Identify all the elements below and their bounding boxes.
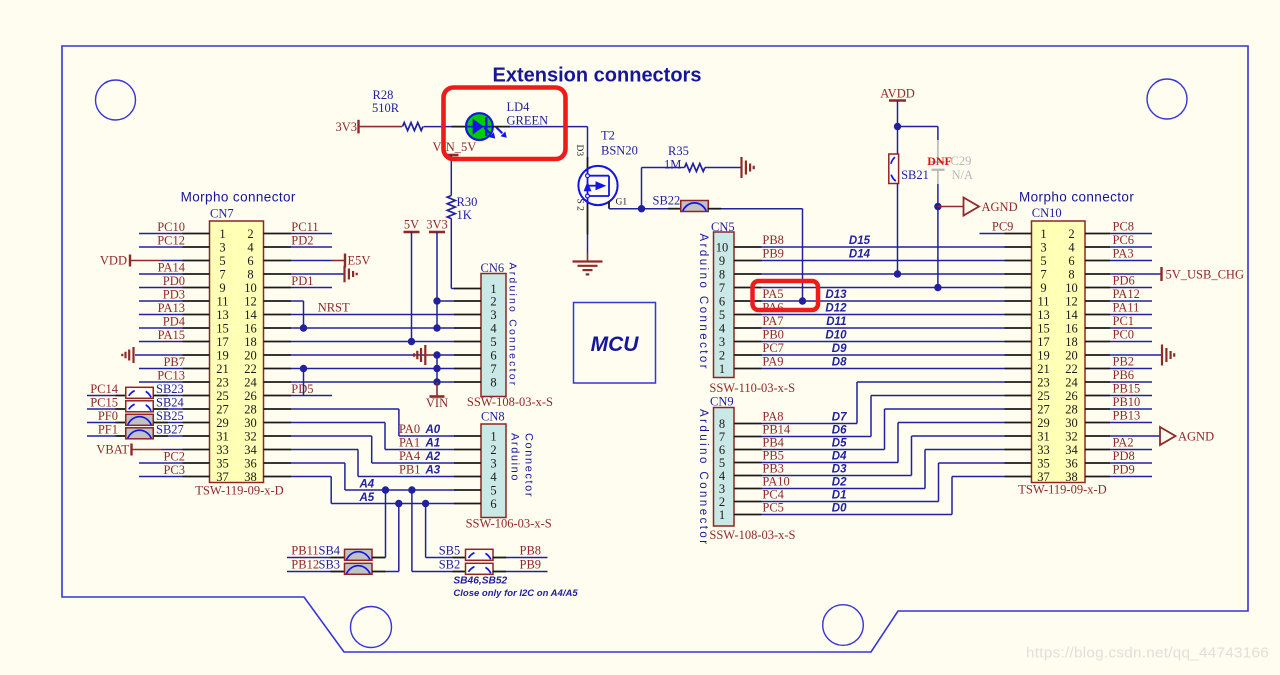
svg-text:D13: D13 (825, 289, 847, 301)
svg-text:8: 8 (719, 267, 725, 281)
svg-text:11: 11 (1037, 294, 1049, 308)
svg-text:D12: D12 (825, 303, 847, 315)
svg-text:PB8: PB8 (520, 544, 542, 558)
svg-text:5V_USB_CHG: 5V_USB_CHG (1166, 268, 1245, 282)
svg-text:PC12: PC12 (157, 234, 185, 248)
svg-text:E5V: E5V (348, 254, 371, 268)
svg-text:SSW-110-03-x-S: SSW-110-03-x-S (709, 381, 795, 395)
svg-text:1: 1 (1040, 227, 1046, 241)
svg-text:PC7: PC7 (762, 341, 784, 355)
svg-text:35: 35 (1037, 456, 1050, 470)
svg-text:AVDD: AVDD (880, 87, 915, 101)
svg-text:9: 9 (719, 254, 725, 268)
svg-text:PB6: PB6 (1113, 368, 1135, 382)
svg-text:5: 5 (1040, 254, 1046, 268)
svg-text:8: 8 (490, 375, 496, 389)
svg-text:22: 22 (244, 362, 257, 376)
svg-text:7: 7 (719, 430, 725, 444)
svg-text:PC15: PC15 (90, 396, 118, 410)
svg-text:35: 35 (216, 456, 229, 470)
svg-text:PB9: PB9 (520, 558, 542, 572)
svg-text:21: 21 (1037, 362, 1050, 376)
svg-text:A0: A0 (425, 424, 441, 436)
svg-text:15: 15 (1037, 321, 1050, 335)
svg-text:PA1: PA1 (399, 436, 420, 450)
svg-text:2: 2 (490, 443, 496, 457)
svg-text:S 2: S 2 (575, 199, 585, 212)
svg-text:PA12: PA12 (1113, 287, 1140, 301)
svg-text:9: 9 (1040, 281, 1046, 295)
svg-text:16: 16 (244, 321, 257, 335)
svg-text:4: 4 (490, 470, 497, 484)
svg-text:PB15: PB15 (1113, 382, 1141, 396)
svg-text:13: 13 (1037, 308, 1050, 322)
svg-text:SB5: SB5 (439, 544, 461, 558)
svg-text:VIN: VIN (426, 396, 448, 410)
svg-text:20: 20 (244, 348, 257, 362)
svg-text:D10: D10 (825, 330, 847, 342)
svg-text:PC13: PC13 (157, 369, 185, 383)
svg-text:12: 12 (1065, 294, 1078, 308)
svg-text:32: 32 (244, 429, 257, 443)
svg-text:24: 24 (244, 375, 257, 389)
svg-text:D11: D11 (826, 316, 846, 328)
svg-text:PB0: PB0 (762, 328, 784, 342)
svg-text:D0: D0 (832, 503, 847, 515)
svg-text:1: 1 (719, 508, 725, 522)
svg-text:1: 1 (490, 429, 496, 443)
svg-text:D2: D2 (832, 477, 847, 489)
svg-text:A1: A1 (425, 438, 441, 450)
svg-text:PA2: PA2 (1113, 436, 1134, 450)
svg-text:PD5: PD5 (291, 382, 313, 396)
svg-text:6: 6 (490, 348, 496, 362)
svg-text:26: 26 (1065, 389, 1078, 403)
svg-text:R28: R28 (373, 88, 394, 102)
svg-text:4: 4 (247, 240, 254, 254)
svg-text:31: 31 (216, 429, 229, 443)
svg-text:PA13: PA13 (158, 301, 185, 315)
svg-text:12: 12 (244, 294, 257, 308)
svg-text:SSW-108-03-x-S: SSW-108-03-x-S (709, 528, 795, 542)
svg-text:D3: D3 (832, 464, 847, 476)
svg-text:N/A: N/A (952, 168, 974, 182)
svg-text:3: 3 (1040, 240, 1046, 254)
svg-text:CN8: CN8 (481, 410, 505, 424)
svg-text:PF1: PF1 (98, 423, 118, 437)
svg-text:DNF: DNF (927, 154, 952, 168)
svg-text:PB11: PB11 (291, 544, 318, 558)
svg-text:PB9: PB9 (762, 247, 784, 261)
svg-text:Extension connectors: Extension connectors (493, 65, 702, 87)
svg-text:PA8: PA8 (762, 410, 783, 424)
svg-text:1: 1 (219, 227, 225, 241)
svg-text:AGND: AGND (982, 200, 1018, 214)
svg-text:Arduino Connector: Arduino Connector (507, 263, 519, 388)
svg-text:D5: D5 (832, 438, 847, 450)
svg-text:PC0: PC0 (1113, 328, 1135, 342)
svg-text:36: 36 (1065, 456, 1078, 470)
svg-text:PC6: PC6 (1113, 233, 1135, 247)
svg-text:A3: A3 (425, 465, 441, 477)
svg-text:PC8: PC8 (1113, 220, 1135, 234)
svg-text:7: 7 (1040, 267, 1046, 281)
svg-text:PB8: PB8 (762, 233, 784, 247)
svg-text:D1: D1 (832, 490, 847, 502)
svg-text:D8: D8 (832, 357, 847, 369)
svg-text:PB5: PB5 (762, 449, 784, 463)
svg-text:CN10: CN10 (1032, 206, 1062, 220)
svg-text:MCU: MCU (591, 333, 640, 356)
svg-text:22: 22 (1065, 362, 1078, 376)
svg-text:3: 3 (490, 456, 496, 470)
svg-text:25: 25 (216, 389, 229, 403)
svg-text:SB24: SB24 (156, 396, 185, 410)
svg-text:8: 8 (1068, 267, 1074, 281)
svg-text:PA9: PA9 (762, 355, 783, 369)
svg-text:PA14: PA14 (158, 261, 186, 275)
svg-text:6: 6 (719, 443, 725, 457)
svg-text:PA7: PA7 (762, 314, 783, 328)
svg-text:17: 17 (216, 335, 229, 349)
svg-text:Arduino Connector: Arduino Connector (697, 234, 709, 372)
svg-text:PC9: PC9 (992, 220, 1014, 234)
svg-text:CN9: CN9 (710, 395, 734, 409)
svg-text:PA5: PA5 (762, 287, 783, 301)
svg-text:PB10: PB10 (1113, 395, 1141, 409)
svg-text:10: 10 (1065, 281, 1078, 295)
svg-text:4: 4 (1068, 240, 1075, 254)
svg-text:3: 3 (219, 240, 225, 254)
svg-text:10: 10 (244, 281, 257, 295)
svg-text:PD8: PD8 (1113, 449, 1135, 463)
svg-text:SB46,SB52: SB46,SB52 (453, 576, 507, 587)
svg-text:31: 31 (1037, 429, 1050, 443)
svg-text:PA6: PA6 (762, 301, 783, 315)
svg-text:4: 4 (719, 469, 726, 483)
svg-text:PD9: PD9 (1113, 463, 1135, 477)
svg-text:PD2: PD2 (291, 234, 313, 248)
svg-text:PC1: PC1 (1113, 314, 1135, 328)
svg-text:5: 5 (719, 308, 725, 322)
svg-text:19: 19 (1037, 348, 1050, 362)
svg-text:T2: T2 (601, 129, 615, 143)
svg-text:PC11: PC11 (291, 220, 318, 234)
svg-text:SB27: SB27 (156, 423, 184, 437)
svg-text:23: 23 (1037, 375, 1050, 389)
svg-text:Morpho connector: Morpho connector (181, 190, 296, 205)
svg-text:VBAT: VBAT (96, 443, 129, 457)
svg-text:8: 8 (719, 417, 725, 431)
svg-text:D7: D7 (832, 412, 847, 424)
svg-text:32: 32 (1065, 429, 1078, 443)
svg-text:4: 4 (490, 321, 497, 335)
svg-text:D4: D4 (832, 451, 847, 463)
svg-text:PC10: PC10 (157, 220, 185, 234)
svg-text:SB25: SB25 (156, 409, 184, 423)
svg-text:7: 7 (219, 267, 225, 281)
svg-text:1: 1 (719, 362, 725, 376)
svg-text:PC14: PC14 (90, 382, 119, 396)
svg-text:PB3: PB3 (762, 462, 784, 476)
svg-text:29: 29 (216, 416, 229, 430)
svg-text:3: 3 (490, 308, 496, 322)
svg-text:PC3: PC3 (163, 463, 185, 477)
svg-text:PD3: PD3 (163, 288, 185, 302)
svg-text:PA3: PA3 (1113, 247, 1134, 261)
svg-text:3: 3 (719, 335, 725, 349)
svg-text:PA10: PA10 (762, 475, 789, 489)
svg-text:34: 34 (1065, 443, 1078, 457)
svg-text:Morpho connector: Morpho connector (1019, 190, 1134, 205)
svg-text:A5: A5 (359, 492, 375, 504)
svg-text:D3: D3 (574, 145, 584, 157)
svg-text:14: 14 (1065, 308, 1078, 322)
svg-text:11: 11 (216, 294, 228, 308)
svg-text:34: 34 (244, 443, 257, 457)
svg-text:CN7: CN7 (210, 207, 234, 221)
svg-text:PB4: PB4 (762, 436, 784, 450)
svg-text:5: 5 (490, 483, 496, 497)
svg-text:36: 36 (244, 456, 257, 470)
svg-text:LD4: LD4 (507, 100, 531, 114)
svg-text:PB2: PB2 (1113, 355, 1135, 369)
svg-text:SB22: SB22 (653, 194, 681, 208)
svg-text:21: 21 (216, 362, 229, 376)
svg-text:27: 27 (1037, 402, 1050, 416)
svg-text:C29: C29 (951, 154, 972, 168)
svg-text:26: 26 (244, 389, 257, 403)
svg-text:PA11: PA11 (1113, 301, 1140, 315)
svg-text:A4: A4 (359, 479, 375, 491)
svg-text:SSW-106-03-x-S: SSW-106-03-x-S (466, 517, 552, 531)
svg-text:D9: D9 (832, 343, 847, 355)
svg-text:D6: D6 (832, 425, 847, 437)
svg-text:BSN20: BSN20 (601, 144, 638, 158)
svg-text:PC2: PC2 (163, 450, 185, 464)
svg-text:20: 20 (1065, 348, 1078, 362)
svg-text:PA0: PA0 (399, 422, 420, 436)
svg-text:3V3: 3V3 (426, 218, 448, 232)
svg-text:19: 19 (216, 348, 229, 362)
svg-text:2: 2 (719, 348, 725, 362)
svg-text:13: 13 (216, 308, 229, 322)
svg-text:6: 6 (490, 497, 496, 511)
svg-text:SB3: SB3 (319, 558, 341, 572)
svg-text:24: 24 (1065, 375, 1078, 389)
svg-text:VIN_5V: VIN_5V (433, 140, 477, 154)
svg-text:23: 23 (216, 375, 229, 389)
svg-text:NRST: NRST (318, 301, 350, 315)
svg-text:33: 33 (1037, 443, 1050, 457)
svg-text:PD0: PD0 (163, 274, 185, 288)
svg-text:D15: D15 (849, 235, 871, 247)
svg-text:1M: 1M (664, 158, 681, 172)
svg-text:17: 17 (1037, 335, 1050, 349)
svg-text:9: 9 (219, 281, 225, 295)
svg-text:Connector: Connector (523, 433, 535, 498)
svg-text:27: 27 (216, 402, 229, 416)
svg-text:PD6: PD6 (1113, 274, 1135, 288)
svg-text:6: 6 (247, 254, 253, 268)
svg-text:D14: D14 (849, 249, 871, 261)
svg-text:SB4: SB4 (319, 544, 341, 558)
svg-text:28: 28 (244, 402, 257, 416)
svg-text:16: 16 (1065, 321, 1078, 335)
svg-text:5V: 5V (404, 218, 419, 232)
svg-text:5: 5 (219, 254, 225, 268)
svg-text:TSW-119-09-x-D: TSW-119-09-x-D (1018, 483, 1106, 497)
svg-text:PF0: PF0 (98, 409, 118, 423)
svg-text:Arduino Connector: Arduino Connector (697, 409, 709, 547)
svg-text:38: 38 (244, 470, 257, 484)
svg-text:TSW-119-09-x-D: TSW-119-09-x-D (195, 484, 283, 498)
svg-text:https://blog.csdn.net/qq_44743: https://blog.csdn.net/qq_44743166 (1026, 645, 1269, 662)
svg-text:PB14: PB14 (762, 423, 791, 437)
svg-text:5: 5 (490, 335, 496, 349)
svg-text:PA4: PA4 (399, 449, 421, 463)
svg-text:GREEN: GREEN (507, 114, 549, 128)
svg-text:18: 18 (1065, 335, 1078, 349)
svg-text:2: 2 (490, 294, 496, 308)
svg-text:6: 6 (719, 294, 725, 308)
svg-text:PB7: PB7 (163, 355, 185, 369)
svg-text:29: 29 (1037, 416, 1050, 430)
svg-text:SB21: SB21 (901, 168, 929, 182)
svg-text:3V3: 3V3 (335, 120, 357, 134)
svg-text:AGND: AGND (1178, 430, 1214, 444)
svg-text:Arduino: Arduino (509, 433, 521, 482)
svg-text:PD4: PD4 (163, 315, 186, 329)
svg-text:PB12: PB12 (291, 558, 319, 572)
svg-text:VDD: VDD (100, 254, 127, 268)
svg-text:3: 3 (719, 482, 725, 496)
svg-text:30: 30 (1065, 416, 1078, 430)
svg-text:8: 8 (247, 267, 253, 281)
svg-text:Close only for I2C on A4/A5: Close only for I2C on A4/A5 (453, 588, 578, 599)
svg-text:2: 2 (1068, 227, 1074, 241)
svg-text:18: 18 (244, 335, 257, 349)
svg-text:PC5: PC5 (762, 501, 784, 515)
svg-text:SB2: SB2 (439, 558, 461, 572)
svg-text:10: 10 (716, 240, 729, 254)
svg-text:PB1: PB1 (399, 463, 421, 477)
svg-text:A2: A2 (425, 451, 441, 463)
svg-text:30: 30 (244, 416, 257, 430)
svg-text:1K: 1K (457, 208, 472, 222)
svg-text:SSW-108-03-x-S: SSW-108-03-x-S (467, 395, 553, 409)
svg-text:37: 37 (216, 470, 229, 484)
svg-text:G1: G1 (616, 198, 628, 208)
svg-text:33: 33 (216, 443, 229, 457)
svg-text:PA15: PA15 (158, 328, 185, 342)
svg-text:510R: 510R (372, 101, 400, 115)
svg-text:2: 2 (719, 495, 725, 509)
svg-text:PD1: PD1 (291, 274, 313, 288)
svg-text:5: 5 (719, 456, 725, 470)
svg-text:R30: R30 (457, 195, 478, 209)
svg-text:15: 15 (216, 321, 229, 335)
svg-text:28: 28 (1065, 402, 1078, 416)
svg-text:R35: R35 (668, 144, 689, 158)
svg-text:PB13: PB13 (1113, 409, 1141, 423)
svg-text:14: 14 (244, 308, 257, 322)
svg-text:7: 7 (490, 362, 496, 376)
svg-text:6: 6 (1068, 254, 1074, 268)
svg-text:4: 4 (719, 321, 726, 335)
svg-text:7: 7 (719, 281, 725, 295)
svg-text:PC4: PC4 (762, 488, 784, 502)
svg-text:SB23: SB23 (156, 382, 184, 396)
svg-text:25: 25 (1037, 389, 1050, 403)
svg-text:2: 2 (247, 227, 253, 241)
